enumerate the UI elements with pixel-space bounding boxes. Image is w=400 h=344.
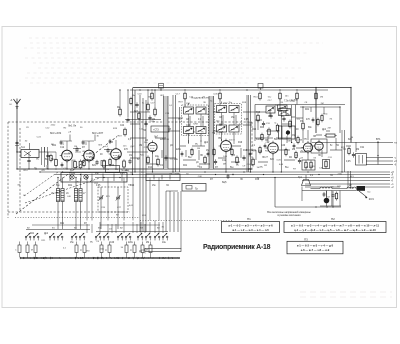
- IF transformer IF3: [266, 105, 287, 113]
- pilot lamp: [324, 191, 330, 203]
- svg-text:220к: 220к: [100, 248, 104, 250]
- tube L6 (6G7 det): [265, 139, 278, 155]
- speaker output transformer box: [356, 154, 367, 166]
- power return wire with arrow: [275, 171, 374, 207]
- AF coupling to output: [295, 88, 355, 173]
- svg-text:2М: 2М: [328, 128, 331, 130]
- lamp box: [106, 166, 129, 173]
- terminal labels: [394, 141, 397, 166]
- svg-text:R19: R19: [256, 112, 261, 114]
- svg-text:2М: 2М: [321, 103, 324, 105]
- wire: bus y169: [17, 168, 252, 170]
- extra small parts midband: [181, 114, 324, 157]
- coupling caps between stages: [73, 146, 112, 153]
- tuning gang shaft B (grey band): [209, 96, 214, 169]
- svg-text:М: М: [146, 250, 148, 252]
- svg-text:220к: 220к: [160, 139, 165, 141]
- svg-text:0,05: 0,05: [244, 119, 249, 121]
- switch contact S11: [137, 233, 143, 240]
- resistor R1: [55, 152, 58, 167]
- tube L8 (magic eye): [311, 135, 327, 153]
- dashed enclosure: tuner unit: [8, 122, 252, 221]
- tube L3 (6K3): [109, 141, 122, 161]
- svg-text:220к: 220к: [51, 124, 56, 126]
- dial/padder box 1: [61, 173, 127, 183]
- svg-text:1М: 1М: [197, 148, 200, 150]
- coil/contact group K3: [31, 242, 37, 258]
- coil/contact group K5: [80, 242, 86, 258]
- svg-text:П3: П3: [304, 237, 308, 241]
- svg-text:R21: R21: [260, 127, 265, 129]
- svg-text:51к: 51к: [188, 157, 192, 159]
- svg-text:68к: 68к: [82, 151, 85, 153]
- resistor Rb5: [279, 91, 282, 100]
- antenna series cap: [15, 140, 19, 145]
- tube L5 (6K7 IF): [218, 137, 231, 153]
- interconnect wires midband: [130, 107, 356, 164]
- svg-text:А: А: [11, 98, 13, 102]
- wire: bus y177.5: [95, 177, 390, 179]
- svg-text:1М: 1М: [206, 150, 209, 152]
- coil/contact group K2: [26, 242, 29, 258]
- svg-text:+СГЗ: +СГЗ: [153, 130, 159, 132]
- svg-text:а-1 — б-2 — в-3 — г-4 — д-5: а-1 — б-2 — в-3 — г-4 — д-5: [297, 244, 334, 248]
- wire: bus y174.5: [55, 174, 390, 176]
- coil/contact group K4: [75, 242, 78, 258]
- connector strip box: [139, 248, 181, 253]
- svg-text:2М: 2М: [320, 97, 323, 99]
- fuse on top bus: [258, 84, 263, 91]
- switch contact S10: [125, 233, 131, 240]
- mains cap near bus: [222, 174, 234, 184]
- svg-text:Радиоприемник А-18: Радиоприемник А-18: [203, 244, 271, 251]
- svg-text:П1: П1: [247, 217, 251, 221]
- svg-text:1М: 1М: [206, 114, 209, 116]
- svg-text:а-1 — б-2 — в-3 — г-4 — д-5 —: а-1 — б-2 — в-3 — г-4 — д-5 — е-6 — ж-7 …: [291, 224, 380, 228]
- grid caps above tubes: [60, 139, 116, 148]
- switch shaft (hatched line): [20, 257, 180, 259]
- electrolytic block C (filled): [357, 186, 366, 191]
- svg-text:220к: 220к: [128, 242, 133, 244]
- switch contact S6: [79, 233, 85, 240]
- switch feed wires: [26, 178, 168, 234]
- RF coils L7 L8: [74, 178, 86, 230]
- component value labels: [30, 109, 365, 244]
- detector cluster parts: [256, 99, 297, 172]
- coil/contact group K8: [125, 242, 128, 258]
- svg-text:220к: 220к: [176, 149, 181, 151]
- svg-text:1М: 1М: [356, 149, 359, 151]
- loudspeaker: [298, 175, 311, 186]
- svg-text:М: М: [31, 250, 33, 252]
- switch contact S1: [25, 233, 31, 240]
- resistor Rb6: [296, 91, 299, 100]
- resistor R30: [323, 191, 338, 200]
- switch contact S2: [33, 233, 39, 240]
- IF transformer IF2: [215, 102, 242, 142]
- title: Radiopriemnik A-18: [203, 244, 271, 251]
- svg-text:ВГ1: ВГ1: [376, 137, 381, 141]
- switch contact S5: [71, 233, 77, 240]
- coil/contact group K6: [100, 242, 103, 258]
- cathode parts under tube L2: [89, 159, 106, 175]
- trimmer box (dashed): [98, 187, 128, 229]
- coil/contact group K9: [130, 242, 136, 258]
- cathode resistor box (output): [302, 152, 330, 170]
- svg-text:Гн1: Гн1: [21, 146, 25, 149]
- svg-text:15к: 15к: [231, 117, 235, 119]
- svg-text:51к: 51к: [45, 159, 49, 161]
- svg-text:Гр: Гр: [195, 187, 198, 191]
- svg-text:15к: 15к: [70, 242, 74, 244]
- svg-text:0,05: 0,05: [96, 185, 101, 187]
- IF transformer IF1: [182, 103, 209, 143]
- switch section labels: [27, 228, 160, 230]
- speaker voice coil: [311, 187, 333, 189]
- svg-text:а-1 — б-2 — в-3 — г-4 — а-5 —: а-1 — б-2 — в-3 — г-4 — а-5 — е-6: [228, 224, 273, 228]
- output terminal wires: [312, 137, 393, 165]
- svg-text:6К3 +6Л2: 6К3 +6Л2: [50, 131, 62, 135]
- power bus tails: [302, 171, 394, 189]
- table P2: [284, 217, 386, 233]
- filter cap C29: [331, 191, 334, 206]
- oscillator coil box: [125, 90, 169, 139]
- svg-text:6Ж8: 6Ж8: [193, 124, 198, 126]
- svg-text:2М: 2М: [223, 163, 226, 165]
- svg-text:Гр1: Гр1: [298, 176, 302, 179]
- dense label speckle: [17, 95, 370, 255]
- svg-text:6Ц5: 6Ц5: [222, 181, 227, 184]
- svg-text:1М: 1М: [17, 185, 20, 187]
- svg-text:68к: 68к: [304, 138, 307, 140]
- wire: bus y172: [40, 171, 390, 173]
- AF transformer box: [279, 126, 296, 139]
- svg-text:220к: 220к: [323, 113, 328, 115]
- top bus tick labels: [138, 94, 324, 105]
- dial/padder box 2: [146, 174, 180, 181]
- svg-text:51к: 51к: [230, 167, 234, 169]
- IF stage lower parts: [185, 99, 254, 172]
- switch contact S3: [49, 233, 55, 240]
- wire: top bus: [130, 88, 351, 91]
- svg-text:П2: П2: [331, 217, 335, 221]
- filter choke Dr: [332, 184, 356, 189]
- tube L4 (6A8 conv): [145, 139, 157, 154]
- cathode parts under tube L1: [51, 152, 82, 175]
- svg-text:0,05: 0,05: [346, 161, 351, 163]
- converter cluster parts: [117, 90, 168, 172]
- switch contact S13: [154, 233, 160, 240]
- svg-text:68к: 68к: [308, 127, 312, 129]
- switch contact S4: [57, 233, 63, 240]
- svg-text:51к: 51к: [170, 158, 173, 160]
- resistor Rb1: [151, 91, 154, 100]
- svg-text:220к: 220к: [337, 173, 342, 175]
- svg-text:51к: 51к: [285, 167, 289, 169]
- tube L1 (6K3): [60, 143, 73, 163]
- wire junctions: [16, 87, 378, 208]
- RF coils L5 L6: [51, 178, 69, 230]
- resistor Rb7: [315, 91, 318, 100]
- svg-text:Лн1 Лн: Лн1 Лн: [68, 125, 77, 128]
- switch contact S12: [145, 233, 151, 240]
- svg-text:КЗ.9: КЗ.9: [369, 198, 375, 201]
- svg-text:в режиме молчания: в режиме молчания: [278, 214, 302, 217]
- tube L7 (6P3 output): [299, 139, 313, 154]
- svg-text:2М: 2М: [146, 242, 149, 244]
- svg-text:220к: 220к: [151, 121, 156, 123]
- stage labels: [50, 125, 104, 136]
- dial lamps in box: [70, 175, 88, 179]
- cathode parts under tube L3: [116, 159, 132, 175]
- switch contact S8: [103, 233, 109, 240]
- detector section frame: [255, 105, 345, 142]
- svg-text:ш: ш: [10, 103, 12, 106]
- svg-text:1М: 1М: [139, 145, 142, 147]
- coil/contact group K10: [141, 242, 144, 258]
- input coil box Gn1: [21, 143, 39, 158]
- svg-text:ц-1 — у-2 — ф-3 — х-4 — ц-5 —: ц-1 — у-2 — ф-3 — х-4 — ц-5 — ч-6 — ш-7 …: [294, 228, 376, 232]
- svg-text:51к: 51к: [268, 97, 271, 99]
- svg-text:15к: 15к: [132, 95, 135, 97]
- wire: long verticals from top bus: [133, 88, 251, 233]
- svg-text:51к: 51к: [367, 192, 370, 194]
- table P3: [287, 237, 343, 254]
- wire bundle to switch unit: [166, 191, 178, 232]
- table P1: [222, 217, 280, 233]
- note above tables: [267, 211, 311, 217]
- coil/contact group K1: [15, 242, 21, 258]
- svg-text:ж-1 — з-2 — и-3 — к-4 — л-5: ж-1 — з-2 — и-3 — к-4 — л-5: [231, 228, 269, 232]
- tube L2 (6A8): [82, 143, 95, 163]
- input tuned circuit wires: [39, 147, 56, 167]
- switch contact S14: [162, 233, 168, 240]
- wire: input row: [16, 151, 21, 152]
- wire: antenna down lead: [16, 146, 18, 169]
- trimmer on top bus: [159, 84, 164, 91]
- pickup jack box Gr: [181, 184, 206, 249]
- resistor Rb4: [259, 91, 262, 100]
- resistor Rb2: [184, 91, 187, 100]
- coil/contact group K11: [146, 242, 152, 258]
- svg-text:51к: 51к: [56, 185, 60, 187]
- resistor Rb3: [219, 91, 222, 100]
- svg-text:2М: 2М: [248, 169, 251, 171]
- coil/contact group K7: [105, 242, 111, 258]
- svg-text:1М: 1М: [257, 167, 260, 169]
- extra left-section parts: [45, 135, 121, 170]
- switch contact S9: [117, 233, 123, 240]
- svg-text:е-6 — ж-7 — з-8 — и-9: е-6 — ж-7 — з-8 — и-9: [301, 248, 330, 252]
- svg-text:2М: 2М: [292, 149, 295, 151]
- capacitor C2: [46, 152, 49, 169]
- ratio detector box: [279, 109, 291, 116]
- svg-text:15к: 15к: [152, 185, 156, 187]
- tuning gang shaft A (grey band): [164, 96, 169, 169]
- svg-text:1М: 1М: [74, 146, 77, 148]
- capacitor C1: [27, 152, 30, 169]
- antenna W1: [10, 98, 21, 152]
- svg-text:ПОДДИАПАЗОНЫ: ПОДДИАПАЗОНЫ: [191, 96, 210, 99]
- dashed mechanical link (gang tuning): [16, 137, 117, 215]
- switch contact S7: [95, 233, 101, 240]
